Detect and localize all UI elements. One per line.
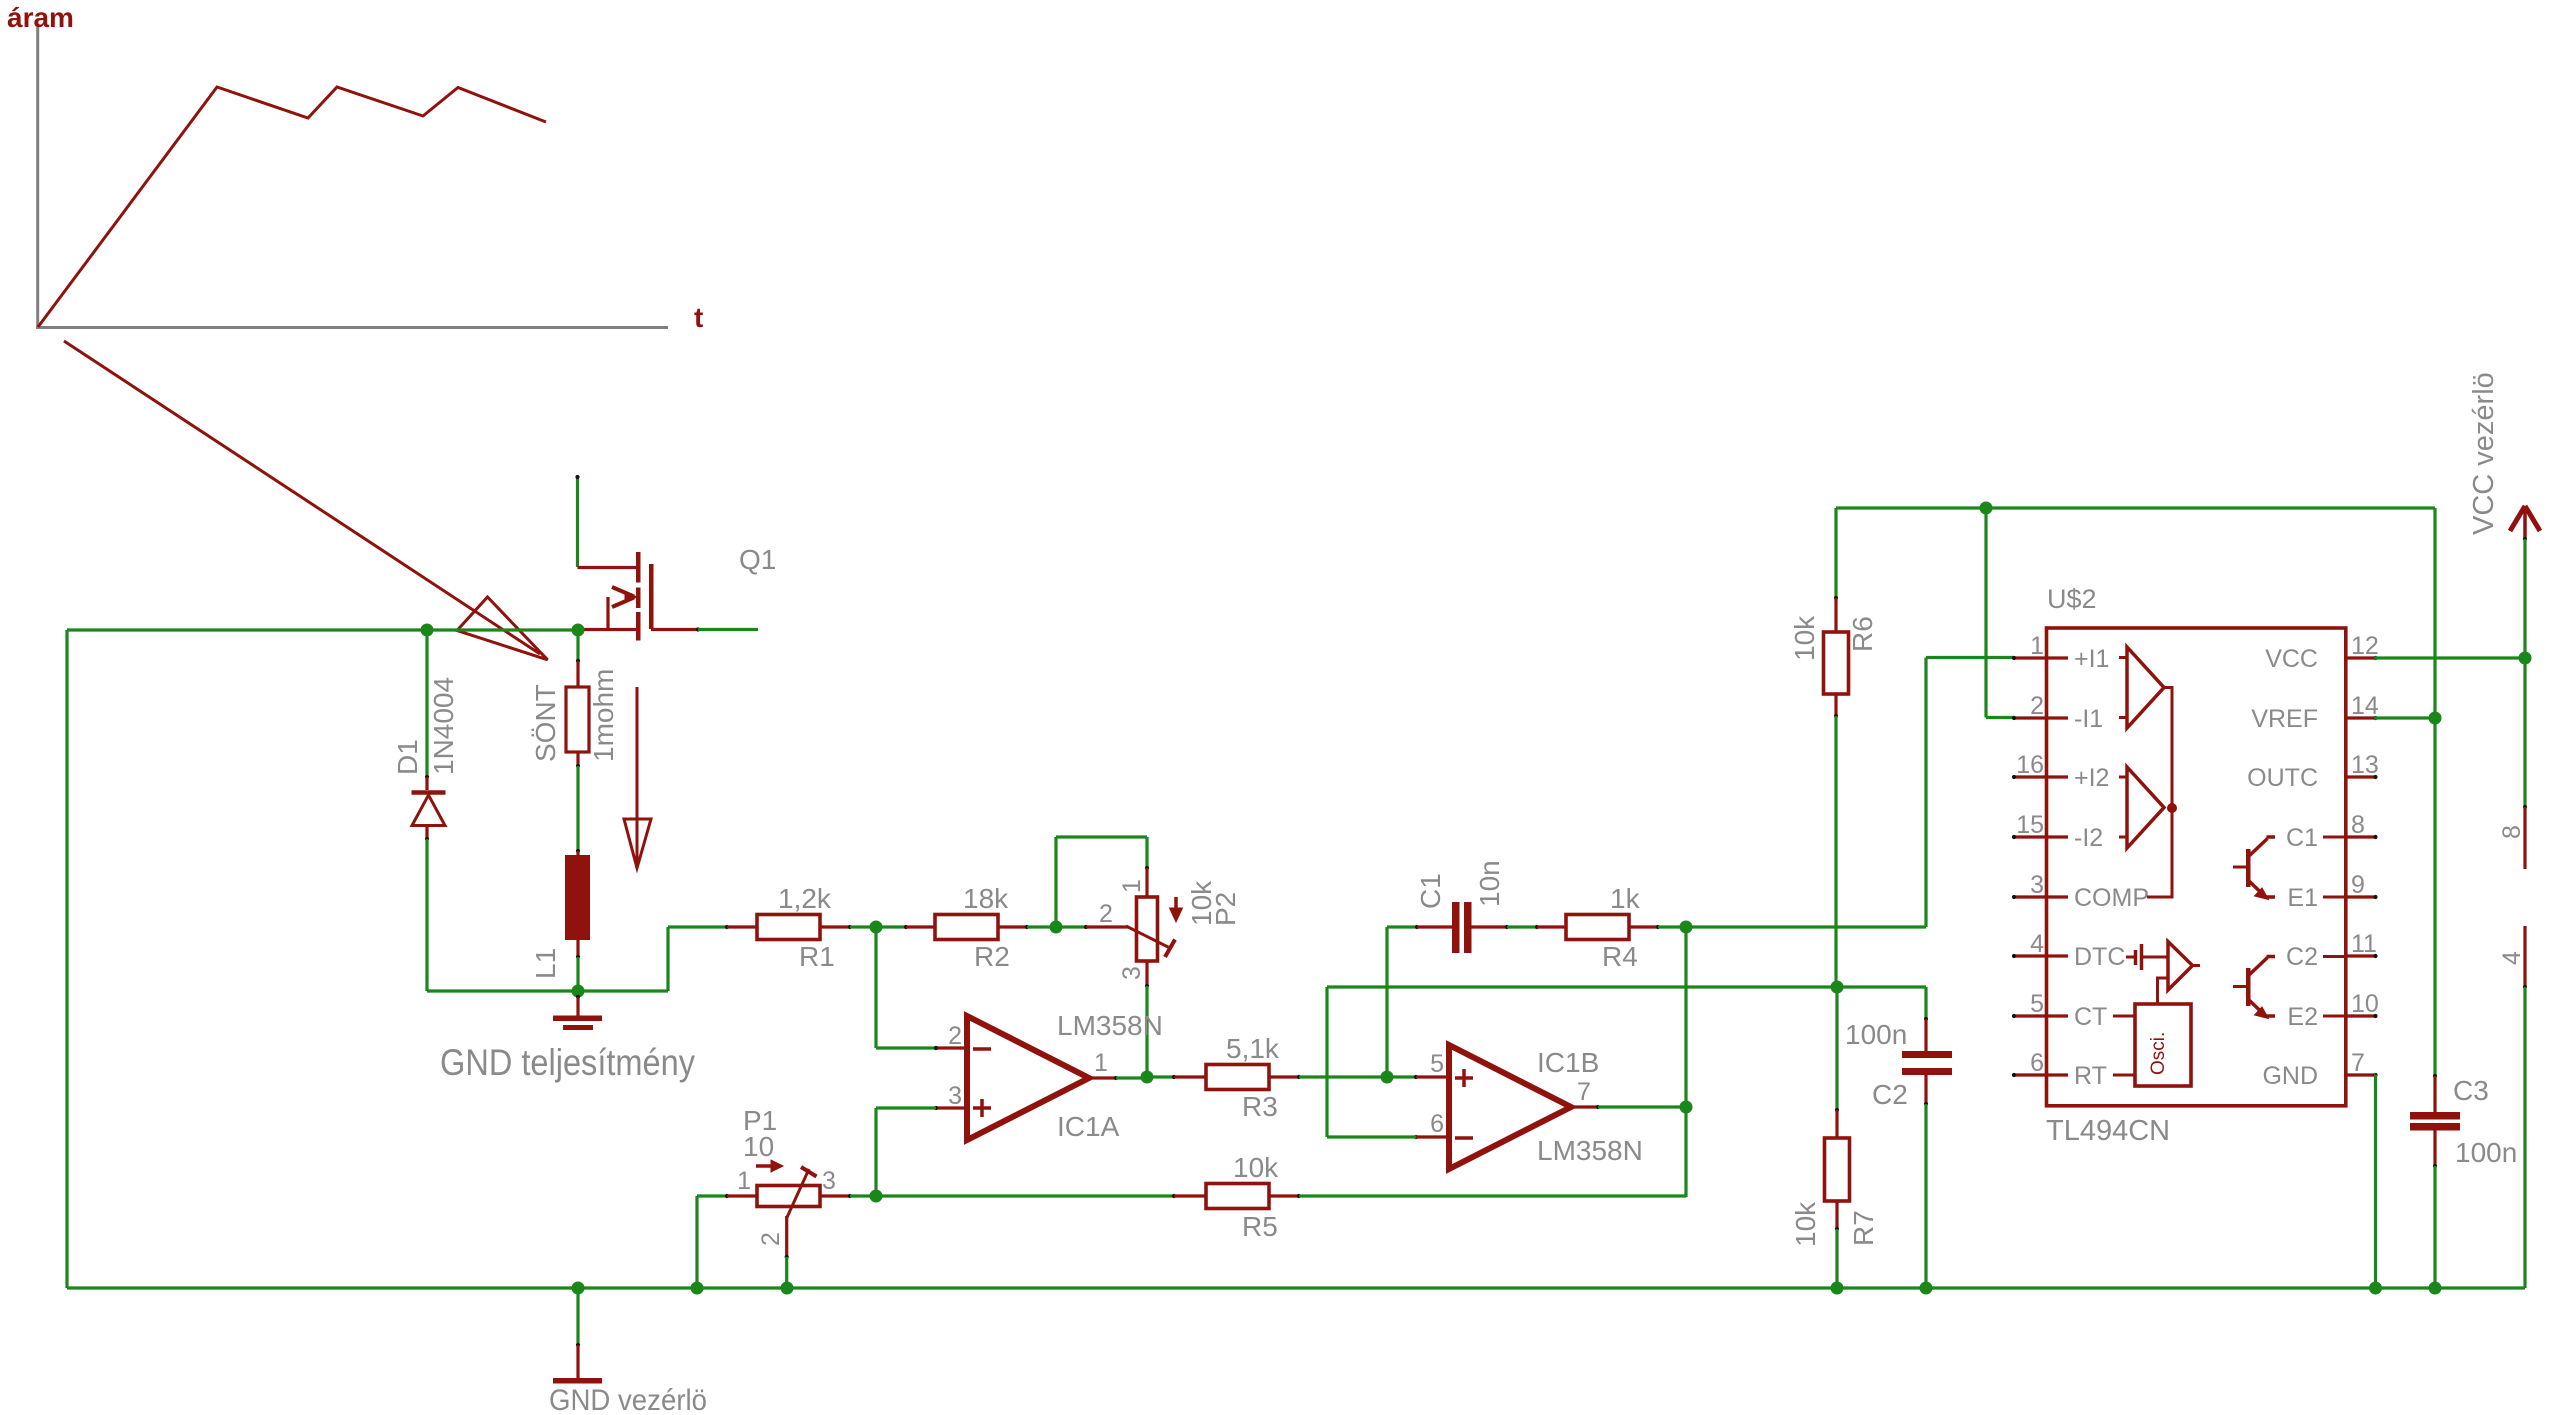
pin 13 OUTC <box>2347 775 2376 778</box>
ground GND teljesítmény <box>576 991 579 997</box>
current sense arrow <box>636 687 639 864</box>
wire IC1A in+ riser <box>874 1108 877 1196</box>
junction top rail <box>1980 502 1993 515</box>
svg-text:15: 15 <box>2016 811 2044 839</box>
resistor R1 1,2k <box>725 925 729 929</box>
wire GND vertical right <box>2523 987 2526 1288</box>
svg-text:Q1: Q1 <box>739 544 776 575</box>
wire VCC pin12 <box>2374 656 2525 659</box>
svg-text:C1: C1 <box>2286 824 2318 852</box>
svg-text:12: 12 <box>2351 632 2379 660</box>
wire junction A to IC1A in- <box>874 927 877 1048</box>
IC U$2 TL494CN body <box>2047 628 2346 1106</box>
junction rail R7 <box>1831 1282 1844 1295</box>
wire P2 pin3 down <box>1145 986 1148 1077</box>
svg-text:100n: 100n <box>1845 1019 1907 1050</box>
svg-text:E2: E2 <box>2287 1003 2318 1031</box>
wire C1 branch <box>1385 927 1388 1077</box>
wire bottom rail <box>67 1286 2525 1289</box>
svg-text:2: 2 <box>2030 692 2044 720</box>
svg-text:LM358N: LM358N <box>1057 1010 1163 1041</box>
diode D1 <box>425 630 428 777</box>
svg-text:-I2: -I2 <box>2074 824 2103 852</box>
junction R3-C1 <box>1381 1071 1394 1084</box>
svg-text:11: 11 <box>2351 930 2377 958</box>
annotation arrow shaft <box>64 341 540 654</box>
pin 11 C2 <box>2347 954 2376 957</box>
svg-text:2: 2 <box>948 1022 962 1050</box>
wire VREF pin14 <box>2374 716 2435 719</box>
svg-text:10: 10 <box>2351 990 2379 1018</box>
svg-text:1: 1 <box>1094 1049 1108 1077</box>
junction IC1A output <box>1141 1071 1154 1084</box>
current waveform <box>38 87 546 327</box>
junction rail P1 pin1 <box>691 1282 704 1295</box>
wire P2 pin1 loop <box>1054 837 1057 927</box>
capacitor C2 100n <box>1837 985 1926 988</box>
svg-text:GND: GND <box>2262 1062 2318 1090</box>
error amp 2 <box>2127 767 2164 848</box>
svg-text:2: 2 <box>757 1232 785 1246</box>
graph y-axis <box>36 27 39 329</box>
svg-text:LM358N: LM358N <box>1537 1135 1643 1166</box>
svg-text:5,1k: 5,1k <box>1226 1033 1280 1064</box>
svg-text:9: 9 <box>2351 871 2365 899</box>
svg-text:100n: 100n <box>2455 1137 2517 1168</box>
svg-text:IC1A: IC1A <box>1057 1111 1120 1142</box>
output transistor Q1 internal <box>2246 849 2251 887</box>
IC1 power pin 8 <box>2523 807 2526 869</box>
junction rail C2 <box>1920 1282 1933 1295</box>
svg-text:RT: RT <box>2074 1062 2107 1090</box>
svg-text:IC1B: IC1B <box>1537 1047 1599 1078</box>
shunt resistor SÖNT 1mohm <box>576 630 579 661</box>
supply arrow VCC vezérlö <box>2523 506 2527 539</box>
svg-text:+I1: +I1 <box>2074 645 2109 673</box>
junction B <box>1050 921 1063 934</box>
svg-text:8: 8 <box>2498 825 2526 839</box>
svg-text:Osci.: Osci. <box>2148 1032 2169 1075</box>
graph x-axis <box>36 326 668 329</box>
wire top rail <box>1836 506 2435 509</box>
svg-text:18k: 18k <box>963 883 1009 914</box>
svg-text:1k: 1k <box>1610 883 1641 914</box>
transistor Q1 <box>578 566 637 569</box>
svg-text:3: 3 <box>948 1082 962 1110</box>
pin 6 RT <box>2014 1073 2068 1076</box>
svg-text:10k: 10k <box>1790 1201 1821 1247</box>
resistor R3 5,1k <box>1147 1075 1174 1078</box>
svg-text:7: 7 <box>1577 1078 1591 1106</box>
svg-text:R5: R5 <box>1242 1211 1278 1242</box>
svg-text:U$2: U$2 <box>2047 584 2097 614</box>
svg-text:2: 2 <box>1099 900 1113 928</box>
junction Q1 source <box>572 624 585 637</box>
svg-text:C3: C3 <box>2453 1075 2489 1106</box>
wire IC1B in- feedback <box>1327 1135 1416 1138</box>
svg-text:1N4004: 1N4004 <box>428 677 459 775</box>
svg-text:8: 8 <box>2351 811 2365 839</box>
wire GND pin7 <box>2374 1073 2376 1076</box>
pin 16 +I2 <box>2014 775 2068 778</box>
wire VCC vertical <box>2523 539 2526 807</box>
wire node X to +I1 <box>1686 925 1926 928</box>
svg-text:3: 3 <box>822 1167 836 1195</box>
resistor R6 10k <box>1834 508 1837 598</box>
svg-text:6: 6 <box>1430 1110 1444 1138</box>
wire Q1 gate <box>576 476 579 567</box>
svg-text:GND teljesítmény: GND teljesítmény <box>440 1042 695 1083</box>
pin 1 +I1 <box>2014 656 2068 659</box>
pin 2 -I1 <box>2014 716 2068 719</box>
svg-text:1mohm: 1mohm <box>588 669 619 762</box>
svg-text:VCC vezérlö: VCC vezérlö <box>2468 372 2500 535</box>
error amp 1 <box>2127 647 2164 728</box>
wire source row <box>67 628 578 631</box>
svg-text:6: 6 <box>2030 1049 2044 1077</box>
ground GND vezérlö <box>576 1288 579 1345</box>
svg-text:+I2: +I2 <box>2074 764 2109 792</box>
svg-text:1: 1 <box>1118 879 1146 893</box>
resistor R2 18k <box>876 925 906 928</box>
svg-text:TL494CN: TL494CN <box>2046 1115 2170 1147</box>
svg-text:VCC: VCC <box>2265 645 2318 673</box>
svg-text:C2: C2 <box>2286 943 2318 971</box>
svg-text:13: 13 <box>2351 751 2379 779</box>
pin 3 COMP <box>2014 895 2068 898</box>
svg-text:DTC: DTC <box>2074 943 2125 971</box>
capacitor C3 100n <box>2433 718 2436 1076</box>
svg-text:D1: D1 <box>392 739 423 775</box>
pin 14 VREF <box>2347 716 2376 719</box>
svg-text:5: 5 <box>2030 990 2044 1018</box>
pin 4 DTC <box>2014 954 2068 957</box>
op-amp IC1B <box>1387 1075 1416 1078</box>
svg-text:10k: 10k <box>1789 615 1820 661</box>
wire Q1 drain <box>698 628 758 631</box>
svg-text:E1: E1 <box>2287 884 2318 912</box>
svg-text:4: 4 <box>2030 930 2044 958</box>
svg-text:5: 5 <box>1430 1050 1444 1078</box>
wire shunt bottom row <box>427 989 668 992</box>
resistor R7 10k <box>1835 987 1838 1110</box>
svg-text:R1: R1 <box>799 941 835 972</box>
wire to R1 riser <box>666 927 669 991</box>
svg-text:GND vezérlö: GND vezérlö <box>549 1384 707 1415</box>
svg-text:C1: C1 <box>1415 873 1446 909</box>
junction rail P1 pin2 <box>781 1282 794 1295</box>
svg-text:C2: C2 <box>1872 1079 1908 1110</box>
svg-text:4: 4 <box>2498 951 2526 965</box>
wire top rail right corner <box>2433 508 2436 718</box>
svg-text:10n: 10n <box>1474 860 1505 907</box>
pin 9 E1 <box>2347 895 2376 898</box>
svg-text:R3: R3 <box>1242 1091 1278 1122</box>
svg-text:1: 1 <box>2030 632 2044 660</box>
svg-text:COMP: COMP <box>2074 884 2149 912</box>
resistor R5 10k <box>876 1194 1174 1197</box>
svg-text:VREF: VREF <box>2251 705 2318 733</box>
svg-text:SÖNT: SÖNT <box>530 684 561 762</box>
dead-time comparator <box>2126 956 2134 959</box>
pin 7 GND <box>2347 1073 2376 1076</box>
junction node Y <box>1831 981 1844 994</box>
wire left loop vertical <box>65 630 68 1288</box>
op-amp IC1A <box>936 1046 965 1049</box>
wire -I1 drop <box>1984 508 1987 718</box>
pin 5 CT <box>2014 1014 2068 1017</box>
svg-text:7: 7 <box>2351 1049 2365 1077</box>
inductor L1 <box>576 849 580 853</box>
svg-text:R6: R6 <box>1847 616 1878 652</box>
junction rail GND <box>572 1282 585 1295</box>
svg-text:t: t <box>694 302 703 333</box>
svg-text:14: 14 <box>2351 692 2379 720</box>
junction IC1B output <box>1680 1101 1693 1114</box>
junction rail C3 <box>2429 1282 2442 1295</box>
pin 10 E2 <box>2347 1014 2376 1017</box>
junction rail TL494 GND <box>2369 1282 2382 1295</box>
oscillator Osci. box <box>2135 1004 2191 1086</box>
junction shunt-gnd <box>572 985 585 998</box>
svg-text:R7: R7 <box>1848 1210 1879 1246</box>
svg-text:CT: CT <box>2074 1003 2107 1031</box>
svg-text:OUTC: OUTC <box>2247 764 2318 792</box>
output transistor Q2 internal <box>2246 968 2251 1006</box>
annotation arrowhead <box>457 597 548 660</box>
potentiometer P2 10k <box>1145 868 1148 897</box>
pin 8 C1 <box>2347 835 2376 838</box>
svg-text:1: 1 <box>737 1167 751 1195</box>
resistor R4 1k <box>1535 925 1539 929</box>
pin 12 VCC <box>2347 656 2376 659</box>
wire P1 pin1 down <box>695 1196 698 1288</box>
capacitor C1 10n <box>1417 925 1452 928</box>
svg-text:L1: L1 <box>530 948 561 979</box>
junction A <box>870 921 883 934</box>
svg-text:R4: R4 <box>1602 941 1638 972</box>
junction R4 node <box>1680 921 1693 934</box>
IC1 power pin 4 <box>2523 926 2526 987</box>
svg-text:1,2k: 1,2k <box>778 883 832 914</box>
wire node X down <box>1684 927 1687 1197</box>
junction VREF <box>2429 712 2442 725</box>
junction P1 row <box>870 1190 883 1203</box>
svg-text:10k: 10k <box>1233 1152 1279 1183</box>
junction D1 top <box>421 624 434 637</box>
pin 15 -I2 <box>2014 835 2068 838</box>
svg-text:R2: R2 <box>974 941 1010 972</box>
svg-text:P2: P2 <box>1210 892 1241 926</box>
svg-text:3: 3 <box>1118 966 1146 980</box>
svg-text:áram: áram <box>7 2 74 33</box>
junction VCC <box>2519 652 2532 665</box>
svg-text:10: 10 <box>743 1131 774 1162</box>
potentiometer P1 10 <box>697 1194 727 1197</box>
svg-text:-I1: -I1 <box>2074 705 2103 733</box>
svg-text:16: 16 <box>2016 751 2044 779</box>
svg-text:3: 3 <box>2030 871 2044 899</box>
